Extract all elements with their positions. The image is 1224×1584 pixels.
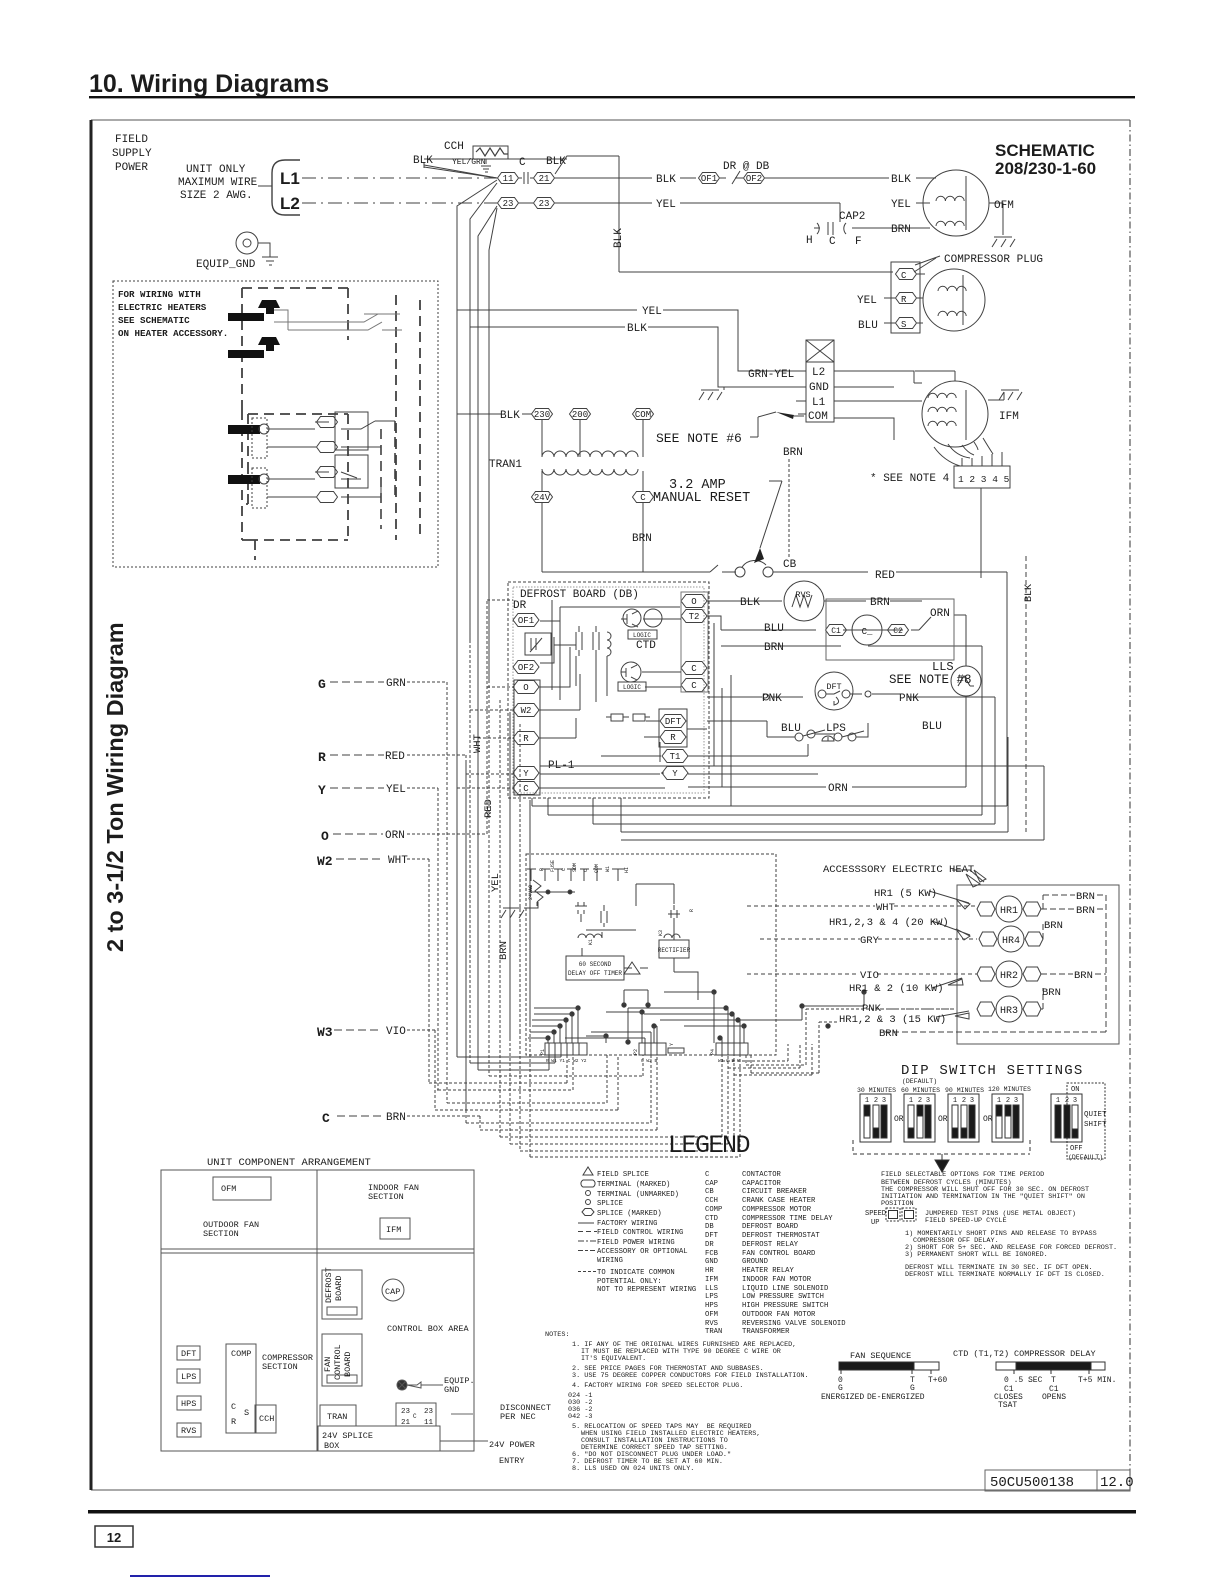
svg-text:1: 1: [1056, 1097, 1060, 1105]
svg-text:GRN-YEL: GRN-YEL: [748, 369, 794, 381]
svg-text:DFT: DFT: [705, 1232, 719, 1240]
svg-text:P1: P1: [540, 1049, 546, 1055]
svg-text:10. Wiring Diagrams: 10. Wiring Diagrams: [89, 70, 329, 98]
svg-text:FIELD SPLICE: FIELD SPLICE: [597, 1171, 649, 1179]
svg-text:DR: DR: [513, 600, 527, 612]
svg-text:OFM: OFM: [705, 1311, 718, 1319]
svg-text:FCB: FCB: [705, 1250, 719, 1258]
svg-text:C2: C2: [893, 627, 903, 636]
svg-text:23: 23: [424, 1408, 434, 1416]
svg-text:8. LLS USED ON 024 UNITS ONLY.: 8. LLS USED ON 024 UNITS ONLY.: [572, 1465, 694, 1473]
svg-text:SEE NOTE #6: SEE NOTE #6: [656, 431, 742, 446]
svg-text:COMPRESSOR MOTOR: COMPRESSOR MOTOR: [742, 1206, 812, 1214]
svg-text:PER NEC: PER NEC: [500, 1412, 536, 1422]
svg-text:200: 200: [572, 410, 588, 420]
svg-text:LLS: LLS: [932, 660, 954, 674]
svg-text:DFT: DFT: [665, 717, 682, 727]
svg-text:LEGEND: LEGEND: [668, 1131, 750, 1160]
svg-text:SHIFT: SHIFT: [1084, 1121, 1107, 1129]
svg-text:3: 3: [1073, 1097, 1077, 1105]
svg-text:DEFROST RELAY: DEFROST RELAY: [742, 1241, 799, 1249]
svg-text:TERMINAL (UNMARKED): TERMINAL (UNMARKED): [597, 1191, 679, 1199]
svg-text:C: C: [413, 1413, 417, 1420]
svg-text:BLK: BLK: [891, 174, 911, 186]
svg-text:CTD: CTD: [705, 1215, 718, 1223]
svg-text:K3: K3: [658, 930, 664, 936]
svg-text:RVS: RVS: [181, 1426, 196, 1436]
svg-text:DR: DR: [705, 1241, 714, 1249]
svg-text:IT'S EQUIVALENT.: IT'S EQUIVALENT.: [581, 1355, 646, 1363]
svg-text:O: O: [523, 683, 528, 693]
svg-text:FIELD SELECTABLE OPTIONS FOR T: FIELD SELECTABLE OPTIONS FOR TIME PERIOD: [881, 1171, 1044, 1179]
svg-text:DB: DB: [705, 1223, 714, 1231]
svg-text:BOARD: BOARD: [334, 1275, 344, 1301]
svg-text:WHT: WHT: [472, 734, 484, 753]
svg-text:CAPACITOR: CAPACITOR: [742, 1180, 782, 1188]
svg-text:12.0: 12.0: [1100, 1475, 1134, 1491]
svg-text:12: 12: [107, 1530, 121, 1545]
svg-text:HPS: HPS: [705, 1302, 718, 1310]
svg-text:O: O: [321, 829, 329, 844]
svg-text:4. FACTORY WIRING FOR SPEED SE: 4. FACTORY WIRING FOR SPEED SELECTOR PLU…: [572, 1382, 743, 1390]
svg-text:1: 1: [997, 1097, 1001, 1105]
svg-text:BLK: BLK: [546, 156, 566, 168]
svg-text:0 .5 SEC: 0 .5 SEC: [1004, 1376, 1043, 1385]
svg-text:60 MINUTES: 60 MINUTES: [901, 1087, 940, 1094]
svg-text:23: 23: [539, 199, 550, 209]
svg-text:OF1: OF1: [701, 174, 717, 184]
svg-text:OFF: OFF: [1070, 1145, 1083, 1153]
svg-text:DFT: DFT: [181, 1349, 196, 1359]
svg-text:GND: GND: [705, 1258, 718, 1266]
svg-text:CCH: CCH: [444, 141, 464, 153]
svg-text:TRAN: TRAN: [705, 1328, 722, 1336]
svg-text:C: C: [231, 1402, 236, 1412]
svg-text:SEE SCHEMATIC: SEE SCHEMATIC: [118, 315, 190, 326]
svg-text:W1: W1: [605, 866, 611, 872]
svg-text:* SEE NOTE 4: * SEE NOTE 4: [870, 473, 950, 485]
svg-text:C: C: [691, 681, 697, 691]
svg-text:O: O: [691, 597, 696, 607]
svg-text:HR4: HR4: [1002, 936, 1020, 947]
svg-text:C: C: [583, 869, 589, 872]
svg-text:DEFROST THERMOSTAT: DEFROST THERMOSTAT: [742, 1232, 820, 1240]
svg-text:COMP: COMP: [231, 1349, 251, 1359]
svg-text:BRN: BRN: [1074, 970, 1093, 982]
svg-text:UP: UP: [871, 1219, 879, 1227]
svg-text:CAP: CAP: [705, 1180, 718, 1188]
svg-text:DIP SWITCH SETTINGS: DIP SWITCH SETTINGS: [901, 1063, 1083, 1079]
svg-text:BLK: BLK: [613, 228, 625, 248]
svg-text:HR1,2,3 & 4 (20 KW): HR1,2,3 & 4 (20 KW): [829, 917, 949, 929]
svg-text:WHT: WHT: [388, 855, 408, 867]
svg-text:CONTROL: CONTROL: [333, 1344, 343, 1380]
svg-text:1: 1: [865, 1097, 869, 1105]
svg-text:C: C: [561, 868, 567, 871]
svg-text:BLU: BLU: [858, 320, 878, 332]
svg-text:C: C: [322, 1111, 330, 1126]
svg-text:S: S: [244, 1408, 249, 1418]
svg-text:HR1: HR1: [1000, 906, 1018, 917]
svg-text:60 SECOND: 60 SECOND: [579, 961, 612, 968]
svg-text:SPLICE (MARKED): SPLICE (MARKED): [597, 1210, 662, 1218]
svg-text:11: 11: [503, 174, 514, 184]
svg-text:ENTRY: ENTRY: [499, 1456, 525, 1466]
svg-text:COMPRESSOR TIME DELAY: COMPRESSOR TIME DELAY: [742, 1215, 833, 1223]
svg-text:WHT: WHT: [876, 902, 895, 914]
svg-text:BRN: BRN: [632, 533, 652, 545]
svg-text:P2: P2: [633, 1049, 639, 1055]
svg-text:3: 3: [882, 1097, 886, 1105]
svg-text:24V POWER: 24V POWER: [489, 1440, 535, 1450]
svg-text:BRN: BRN: [498, 941, 510, 960]
svg-text:CCH: CCH: [259, 1414, 274, 1424]
svg-text:DEFROST BOARD (DB): DEFROST BOARD (DB): [520, 589, 639, 601]
svg-text:OF2: OF2: [746, 174, 762, 184]
svg-text:BRN: BRN: [386, 1112, 406, 1124]
svg-text:ON: ON: [1071, 1086, 1079, 1094]
svg-text:BLK: BLK: [500, 410, 520, 422]
svg-text:BRN: BRN: [764, 642, 784, 654]
svg-text:OFM: OFM: [994, 200, 1014, 212]
svg-text:OF1: OF1: [518, 616, 534, 626]
svg-text:CONTROL BOX AREA: CONTROL BOX AREA: [387, 1324, 470, 1334]
svg-text:RECTIFIER: RECTIFIER: [658, 947, 691, 954]
svg-text:IFM: IFM: [386, 1225, 401, 1235]
svg-text:Y: Y: [523, 769, 529, 779]
svg-text:DEFROST BOARD: DEFROST BOARD: [742, 1223, 798, 1231]
svg-text:C: C: [523, 784, 529, 794]
svg-text:IFM: IFM: [705, 1276, 718, 1284]
svg-text:R: R: [670, 733, 676, 743]
svg-text:1 2 3 4 5: 1 2 3 4 5: [958, 474, 1010, 485]
svg-text:QUIET: QUIET: [1084, 1111, 1107, 1119]
svg-text:24VAC: 24VAC: [528, 885, 534, 900]
svg-text:NOT TO REPRESENT WIRING: NOT TO REPRESENT WIRING: [597, 1286, 696, 1294]
svg-text:LOW PRESSURE SWITCH: LOW PRESSURE SWITCH: [742, 1293, 824, 1301]
svg-text:PNK: PNK: [762, 693, 782, 705]
svg-text:230: 230: [534, 410, 550, 420]
svg-text:FIELD SPEED-UP CYCLE: FIELD SPEED-UP CYCLE: [925, 1217, 1007, 1225]
svg-text:HR: HR: [705, 1267, 714, 1275]
svg-text:L1: L1: [812, 397, 826, 409]
svg-text:COMPRESSOR DELAY: COMPRESSOR DELAY: [1014, 1349, 1096, 1359]
svg-text:OR: OR: [938, 1115, 948, 1124]
svg-text:208/230-1-60: 208/230-1-60: [995, 159, 1096, 178]
svg-text:COM: COM: [635, 410, 651, 420]
svg-text:POWER: POWER: [115, 162, 148, 174]
svg-text:LIQUID LINE SOLENOID: LIQUID LINE SOLENOID: [742, 1285, 828, 1293]
svg-text:YEL: YEL: [857, 295, 877, 307]
svg-text:L2: L2: [812, 367, 825, 379]
svg-text:R: R: [318, 750, 326, 765]
svg-text:23: 23: [401, 1408, 411, 1416]
svg-text:SECTION: SECTION: [203, 1229, 239, 1239]
svg-text:YEL: YEL: [891, 199, 911, 211]
svg-text:INDOOR FAN MOTOR: INDOOR FAN MOTOR: [742, 1276, 812, 1284]
svg-text:DEFROST: DEFROST: [324, 1267, 334, 1303]
svg-text:DR @ DB: DR @ DB: [723, 161, 770, 173]
svg-text:W2: W2: [521, 706, 532, 716]
svg-text:FAN: FAN: [323, 1357, 333, 1372]
svg-text:IFM: IFM: [999, 411, 1019, 423]
svg-text:GRY: GRY: [860, 935, 880, 947]
svg-text:CIRCUIT BREAKER: CIRCUIT BREAKER: [742, 1188, 807, 1196]
svg-text:COMP: COMP: [705, 1206, 722, 1214]
svg-text:BLK: BLK: [413, 155, 433, 167]
svg-text:LPS: LPS: [705, 1293, 718, 1301]
svg-text:C: C: [829, 236, 836, 248]
svg-text:OR: OR: [983, 1115, 993, 1124]
svg-text:CTD (T1,T2): CTD (T1,T2): [953, 1349, 1009, 1359]
svg-text:RVS: RVS: [705, 1320, 718, 1328]
svg-text:YEL: YEL: [386, 784, 406, 796]
svg-text:MANUAL RESET: MANUAL RESET: [653, 491, 750, 506]
svg-text:ELECTRIC HEATERS: ELECTRIC HEATERS: [118, 302, 207, 313]
svg-text:S: S: [901, 320, 906, 330]
svg-text:VIO: VIO: [860, 970, 879, 982]
svg-text:T+60: T+60: [928, 1376, 947, 1385]
svg-text:C: C: [640, 493, 646, 503]
svg-text:DFT: DFT: [826, 682, 841, 692]
svg-text:L1: L1: [280, 169, 300, 188]
svg-text:CB: CB: [705, 1188, 714, 1196]
svg-text:CB: CB: [783, 559, 797, 571]
svg-text:SCHEMATIC: SCHEMATIC: [995, 141, 1095, 160]
svg-text:GND: GND: [444, 1385, 459, 1395]
svg-text:HR1 (5 KW): HR1 (5 KW): [874, 888, 937, 900]
svg-text:HIGH PRESSURE SWITCH: HIGH PRESSURE SWITCH: [742, 1302, 828, 1310]
svg-text:21: 21: [401, 1419, 411, 1427]
svg-text:R: R: [523, 734, 529, 744]
svg-text:YEL/GRN: YEL/GRN: [452, 158, 486, 167]
svg-text:Y: Y: [318, 783, 326, 798]
svg-text:2: 2: [1065, 1097, 1069, 1105]
svg-text:HEATER RELAY: HEATER RELAY: [742, 1267, 794, 1275]
svg-text:G: G: [910, 1384, 915, 1393]
svg-text:CTD: CTD: [636, 640, 656, 652]
svg-text:BRN: BRN: [783, 447, 803, 459]
svg-text:YEL: YEL: [490, 873, 502, 892]
svg-text:BLU: BLU: [764, 623, 784, 635]
svg-text:RED: RED: [483, 799, 495, 818]
svg-text:FIELD CONTROL WIRING: FIELD CONTROL WIRING: [597, 1229, 683, 1237]
svg-text:T1: T1: [670, 752, 681, 762]
svg-text:120 MINUTES: 120 MINUTES: [988, 1086, 1031, 1093]
svg-text:OFM: OFM: [221, 1184, 236, 1194]
svg-text:SECTION: SECTION: [368, 1192, 404, 1202]
svg-text:DELAY OFF TIMER: DELAY OFF TIMER: [568, 970, 622, 977]
svg-text:SIZE 2 AWG.: SIZE 2 AWG.: [180, 190, 253, 202]
svg-text:3. USE 75 DEGREE COPPER CONDUC: 3. USE 75 DEGREE COPPER CONDUCTORS FOR F…: [572, 1372, 809, 1380]
svg-text:LOGIC: LOGIC: [633, 632, 651, 639]
svg-text:SECTION: SECTION: [262, 1362, 298, 1372]
svg-text:HR3: HR3: [1000, 1006, 1018, 1017]
svg-text:FAN SEQUENCE: FAN SEQUENCE: [850, 1351, 911, 1361]
svg-text:FAN CONTROL BOARD: FAN CONTROL BOARD: [742, 1250, 815, 1258]
svg-text:CRANK CASE HEATER: CRANK CASE HEATER: [742, 1197, 816, 1205]
svg-text:ORN: ORN: [930, 608, 950, 620]
svg-text:G: G: [838, 1384, 843, 1393]
svg-text:W3: W3: [317, 1025, 333, 1040]
svg-text:FOR WIRING WITH: FOR WIRING WITH: [118, 289, 201, 300]
svg-text:2: 2: [874, 1097, 878, 1105]
svg-text:UNIT ONLY: UNIT ONLY: [186, 164, 246, 176]
svg-text:GND: GND: [809, 382, 829, 394]
svg-text:BLK: BLK: [656, 174, 676, 186]
svg-text:HR1 & 2 (10 KW): HR1 & 2 (10 KW): [849, 983, 944, 995]
svg-text:2: 2: [1006, 1097, 1010, 1105]
svg-text:24V SPLICE: 24V SPLICE: [322, 1431, 373, 1441]
svg-text:SPLICE: SPLICE: [597, 1200, 623, 1208]
svg-text:K1: K1: [588, 939, 594, 945]
svg-text:C1: C1: [831, 627, 841, 636]
svg-text:3: 3: [1014, 1097, 1018, 1105]
svg-text:C: C: [901, 271, 907, 281]
svg-text:R: R: [689, 909, 695, 912]
svg-text:P4: P4: [710, 1049, 716, 1055]
svg-text:T2: T2: [689, 612, 700, 622]
svg-text:W2: W2: [317, 854, 333, 869]
svg-text:C: C: [519, 157, 526, 169]
svg-text:COMPRESSOR PLUG: COMPRESSOR PLUG: [944, 254, 1043, 266]
svg-text:CCH: CCH: [705, 1197, 718, 1205]
svg-text:BRN: BRN: [879, 1028, 898, 1040]
svg-text:R: R: [901, 295, 907, 305]
svg-text:T+5 MIN.: T+5 MIN.: [1078, 1376, 1116, 1385]
svg-text:Y: Y: [672, 769, 678, 779]
svg-text:FIELD: FIELD: [115, 134, 148, 146]
svg-text:1: 1: [953, 1097, 957, 1105]
svg-text:OF2: OF2: [518, 663, 534, 673]
svg-text:BOX: BOX: [324, 1441, 339, 1451]
svg-text:C: C: [691, 664, 697, 674]
svg-text:TERMINAL (MARKED): TERMINAL (MARKED): [597, 1181, 670, 1189]
svg-text:50CU500138: 50CU500138: [990, 1475, 1074, 1491]
svg-text:2: 2: [962, 1097, 966, 1105]
svg-text:R: R: [231, 1417, 236, 1427]
svg-text:24V: 24V: [534, 493, 551, 503]
svg-text:042 -3: 042 -3: [568, 1413, 592, 1421]
svg-text:TSAT: TSAT: [998, 1401, 1017, 1410]
svg-text:NOTES:: NOTES:: [545, 1331, 569, 1339]
svg-text:HR1,2 & 3 (15 KW): HR1,2 & 3 (15 KW): [839, 1014, 946, 1026]
svg-text:LLS: LLS: [705, 1285, 718, 1293]
svg-text:POSITION: POSITION: [881, 1200, 914, 1208]
svg-text:HI: HI: [624, 867, 630, 873]
svg-text:TRAN: TRAN: [327, 1412, 347, 1422]
svg-text:(DEFAULT): (DEFAULT): [1068, 1154, 1103, 1161]
svg-text:YEL: YEL: [656, 199, 676, 211]
svg-text:FACTORY WIRING: FACTORY WIRING: [597, 1220, 657, 1228]
svg-text:3: 3: [970, 1097, 974, 1105]
svg-text:ACCESSORY OR OPTIONAL: ACCESSORY OR OPTIONAL: [597, 1248, 688, 1256]
svg-text:BLU: BLU: [922, 721, 942, 733]
svg-text:BRN: BRN: [1044, 920, 1063, 932]
svg-text:BOARD: BOARD: [343, 1351, 353, 1377]
svg-text:BRN: BRN: [1042, 987, 1061, 999]
svg-text:R: R: [539, 868, 545, 871]
svg-text:TO INDICATE COMMON: TO INDICATE COMMON: [597, 1269, 675, 1277]
svg-text:(DEFAULT): (DEFAULT): [902, 1078, 937, 1085]
svg-text:CAP: CAP: [385, 1287, 400, 1297]
svg-text:21: 21: [539, 174, 550, 184]
svg-text:GROUND: GROUND: [742, 1258, 768, 1266]
svg-text:HPS: HPS: [181, 1399, 196, 1409]
svg-text:ON HEATER ACCESSORY.: ON HEATER ACCESSORY.: [118, 328, 228, 339]
svg-text:DEFROST WILL TERMINATE NORMALL: DEFROST WILL TERMINATE NORMALLY IF DFT I…: [905, 1271, 1105, 1279]
svg-text:RVS: RVS: [795, 590, 810, 600]
svg-text:BRN: BRN: [1076, 891, 1095, 903]
svg-text:BLU: BLU: [781, 723, 801, 735]
svg-text:BLK: BLK: [740, 597, 760, 609]
svg-text:COM: COM: [808, 411, 828, 423]
svg-text:WIRING: WIRING: [597, 1257, 623, 1265]
svg-text:BRN: BRN: [891, 224, 911, 236]
svg-text:ORN: ORN: [385, 830, 405, 842]
svg-text:LPS: LPS: [826, 723, 846, 735]
svg-text:2: 2: [918, 1097, 922, 1105]
svg-text:FUSE: FUSE: [550, 860, 556, 872]
svg-text:CAP2: CAP2: [839, 211, 865, 223]
svg-text:REVERSING VALVE SOLENOID: REVERSING VALVE SOLENOID: [742, 1320, 846, 1328]
svg-text:ORN: ORN: [828, 783, 848, 795]
svg-text:C_: C_: [862, 627, 873, 637]
svg-text:CONTACTOR: CONTACTOR: [742, 1171, 782, 1179]
svg-text:H: H: [806, 235, 813, 247]
svg-text:Y: Y: [669, 1043, 675, 1046]
svg-text:L2: L2: [280, 194, 300, 213]
svg-text:OR: OR: [894, 1115, 904, 1124]
svg-text:1: 1: [909, 1097, 913, 1105]
svg-text:RED: RED: [385, 751, 405, 763]
svg-text:3: 3: [926, 1097, 930, 1105]
svg-text:LOGIC: LOGIC: [623, 684, 641, 691]
svg-text:SPEED: SPEED: [865, 1210, 886, 1218]
svg-text:TRANSFORMER: TRANSFORMER: [742, 1328, 790, 1336]
svg-text:T: T: [1051, 1376, 1056, 1385]
svg-text:G: G: [318, 677, 326, 692]
svg-text:ENERGIZED: ENERGIZED: [821, 1393, 864, 1402]
svg-text:90 MINUTES: 90 MINUTES: [945, 1087, 984, 1094]
svg-text:COM: COM: [594, 864, 600, 873]
svg-text:11: 11: [424, 1419, 434, 1427]
svg-text:POTENTIAL ONLY:: POTENTIAL ONLY:: [597, 1278, 662, 1286]
svg-text:SUPPLY: SUPPLY: [112, 148, 152, 160]
svg-text:UNIT COMPONENT ARRANGEMENT: UNIT COMPONENT ARRANGEMENT: [207, 1157, 371, 1169]
svg-text:SEE NOTE #8: SEE NOTE #8: [889, 673, 972, 687]
svg-text:23: 23: [503, 199, 514, 209]
svg-text:GRN: GRN: [386, 678, 406, 690]
svg-text:VIO: VIO: [386, 1026, 406, 1038]
svg-text:TRAN1: TRAN1: [489, 459, 522, 471]
svg-text:DE-ENERGIZED: DE-ENERGIZED: [867, 1393, 925, 1402]
svg-text:PNK: PNK: [899, 693, 919, 705]
svg-text:F: F: [855, 236, 862, 248]
svg-text:LPS: LPS: [181, 1372, 196, 1382]
svg-text:BLK: BLK: [1024, 584, 1035, 602]
svg-text:2 to 3-1/2 Ton Wiring Diagram: 2 to 3-1/2 Ton Wiring Diagram: [102, 622, 128, 952]
svg-text:OPENS: OPENS: [1042, 1393, 1066, 1402]
svg-text:HR2: HR2: [1000, 971, 1018, 982]
svg-text:3) PERMANENT SHORT WILL BE IGN: 3) PERMANENT SHORT WILL BE IGNORED.: [905, 1251, 1048, 1259]
svg-text:EQUIP_GND: EQUIP_GND: [196, 259, 256, 271]
svg-text:OUTDOOR FAN MOTOR: OUTDOOR FAN MOTOR: [742, 1311, 816, 1319]
svg-text:BLK: BLK: [627, 323, 647, 335]
svg-text:BRN: BRN: [870, 597, 890, 609]
svg-text:FIELD POWER WIRING: FIELD POWER WIRING: [597, 1239, 675, 1247]
svg-text:30 MINUTES: 30 MINUTES: [857, 1087, 896, 1094]
